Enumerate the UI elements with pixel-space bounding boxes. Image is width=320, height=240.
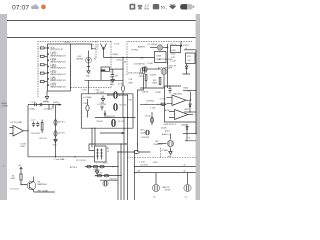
transistor Q21 — [157, 45, 162, 50]
svg-text:MMBT3904: MMBT3904 — [38, 184, 47, 186]
svg-text:A/C5W 2: A/C5W 2 — [70, 166, 77, 169]
svg-text:CON2: CON2 — [116, 59, 122, 61]
svg-text:4: 4 — [38, 65, 39, 67]
resistor R13 — [159, 78, 161, 85]
wire Q23 emitter — [163, 75, 165, 88]
svg-text:2 CON1: 2 CON1 — [147, 63, 154, 65]
svg-text:1.5V 4.5R: 1.5V 4.5R — [140, 165, 148, 167]
svg-text:+C11: +C11 — [31, 120, 35, 122]
CON1 pin rows — [47, 46, 66, 88]
transistor Q162 — [140, 67, 147, 74]
wire vertical from CON2 — [122, 58, 124, 86]
wire Q42 emitter + ground GND5 — [168, 148, 172, 155]
wire h180 — [100, 179, 118, 181]
opamp box — [165, 86, 196, 122]
wire v88 — [87, 80, 89, 94]
svg-text:A-AL6 1,C: A-AL6 1,C — [162, 133, 171, 136]
STATUSBAR — [12, 3, 194, 11]
svg-text:C64: C64 — [115, 76, 118, 78]
PAGEFRAME — [0, 14, 200, 200]
svg-text:C162 BATT(T): C162 BATT(T) — [134, 63, 146, 66]
wire Q162 emitter — [138, 74, 144, 152]
svg-text:12R 4R: 12R 4R — [165, 190, 172, 192]
svg-text:07:07: 07:07 — [12, 4, 29, 11]
battery icon — [180, 4, 193, 9]
svg-text:WAKEUP(B)(T) 4R: WAKEUP(B)(T) 4R — [50, 54, 66, 57]
notif icon 2 — [138, 4, 142, 10]
ground GND7 chain55 — [53, 140, 57, 143]
zener D9 — [186, 124, 188, 134]
svg-text:BATT(B): BATT(B) — [77, 58, 84, 61]
svg-text:TH 1/16: TH 1/16 — [43, 102, 49, 104]
svg-text:WAKEUP(B)(T) 4R: WAKEUP(B)(T) 4R — [50, 61, 66, 64]
wire h133 — [183, 133, 196, 135]
svg-text:DDC(5V)(T) 4R.: DDC(5V)(T) 4R. — [50, 49, 63, 51]
svg-text:X.30R: X.30R — [171, 50, 177, 52]
box X-CON top right — [171, 46, 181, 53]
svg-text:A 25R: A 25R — [54, 101, 60, 104]
svg-text:CON1: CON1 — [64, 42, 70, 44]
svg-text:+3.1: +3.1 — [91, 45, 94, 47]
wire Q22 to Q23 — [148, 68, 161, 70]
capacitor C24 — [168, 86, 171, 94]
sim icon rounded rect — [153, 4, 159, 9]
notif icon 1 — [130, 4, 136, 10]
svg-text:4. (L7) 1.2R: 4. (L7) 1.2R — [10, 188, 20, 190]
bus wire V2 — [120, 144, 122, 200]
component chain x55 — [55, 105, 57, 157]
antenna dashed box — [71, 41, 112, 87]
svg-text:4: 4 — [38, 73, 39, 75]
svg-text:4.7R 2R: 4.7R 2R — [96, 173, 103, 175]
svg-text:K/s: K/s — [145, 7, 150, 11]
transistor Q42 POWER TR — [167, 140, 173, 146]
svg-text:R30 4R: R30 4R — [97, 121, 104, 123]
wire Q42 base — [158, 143, 167, 145]
wire h88 — [140, 87, 164, 89]
svg-text:A22: A22 — [156, 140, 159, 143]
svg-text:1 mod: 1 mod — [98, 44, 100, 49]
wire opamp inputs — [10, 128, 14, 134]
shield dashed box right — [127, 41, 193, 75]
svg-text:4. 25R: 4. 25R — [150, 107, 156, 109]
svg-text:2 25R: 2 25R — [83, 103, 88, 105]
wire arrow at 181 — [180, 41, 182, 46]
svg-text:R2(B): R2(B) — [184, 88, 189, 90]
transistor Q41 — [145, 130, 150, 135]
svg-text:1.2R 4W: 1.2R 4W — [142, 92, 149, 94]
svg-text:DMD1: DMD1 — [113, 54, 120, 56]
amp section box — [81, 94, 133, 128]
svg-text:X 2.5R: X 2.5R — [114, 44, 120, 46]
diode D21 — [183, 64, 191, 75]
svg-text:24),DR: 24),DR — [161, 127, 167, 129]
wire right edge vertical — [195, 50, 197, 134]
svg-text:BAT/C30: BAT/C30 — [163, 186, 170, 189]
bus wire V4 — [127, 95, 129, 200]
svg-text:4. 1.5M(B): 4. 1.5M(B) — [83, 97, 92, 99]
wire Q42 collector up — [170, 134, 172, 140]
ferrite bead FB1 box — [101, 67, 110, 71]
svg-text:1 CON: 1 CON — [31, 102, 37, 104]
junction dots extra — [127, 117, 128, 118]
svg-text:AL61 2: AL61 2 — [165, 130, 170, 133]
transistor Q33 — [112, 119, 116, 126]
svg-text:25R 4.7R: 25R 4.7R — [169, 65, 177, 67]
bus wire V1 — [117, 152, 119, 200]
dashed box bottom right — [127, 148, 196, 158]
wire ferrite bottom — [100, 71, 102, 80]
svg-text:A2003: A2003 — [182, 124, 187, 127]
capacitor C12 — [36, 122, 39, 128]
svg-text:WAKEUP(B)(T) 4R: WAKEUP(B)(T) 4R — [50, 79, 66, 82]
transistor Q52 — [187, 173, 189, 185]
wire R2B — [183, 89, 196, 91]
zener D12 — [104, 111, 106, 118]
svg-text:4R/W: 4R/W — [129, 82, 134, 84]
svg-text:AO POWER/OFF: AO POWER/OFF — [159, 58, 174, 61]
svg-text:R38/L: R38/L — [21, 146, 26, 148]
left mid: ground GND4 — [45, 91, 49, 99]
ground GND2 — [111, 80, 115, 83]
svg-text:R50 C52: R50 C52 — [40, 138, 47, 140]
svg-text:C/BL(T): C/BL(T) — [140, 133, 146, 135]
bus wire V5 — [134, 150, 136, 200]
wire stubs under h104 — [49, 105, 53, 110]
box top right — [186, 53, 196, 64]
svg-text:4/10R: 4/10R — [11, 178, 16, 180]
svg-text:D43 TLV: D43 TLV — [58, 121, 66, 123]
wire U6B inputs — [169, 112, 175, 118]
svg-text:C2-: C2- — [153, 196, 156, 198]
wire R4 to base — [21, 180, 27, 185]
svg-text:4.15/2: 4.15/2 — [153, 162, 158, 164]
resistor chain row 166 left — [85, 166, 118, 168]
junction dots bus — [123, 117, 124, 118]
wire ferrite right — [110, 68, 124, 70]
svg-text:RST_SLN(B): RST_SLN(B) — [38, 190, 49, 192]
bus wire V3 — [123, 118, 125, 201]
capacitor C13 — [40, 103, 42, 106]
svg-text:1. 5mm 50BA: 1. 5mm 50BA — [54, 158, 66, 161]
svg-text:DDC5V_IN(B): DDC5V_IN(B) — [11, 122, 23, 124]
svg-text:WAKEUP(B)(T) 4R: WAKEUP(B)(T) 4R — [50, 67, 66, 70]
arrowhead h104 — [59, 104, 61, 106]
svg-text:3 CON1: 3 CON1 — [2, 106, 9, 108]
resistor chain x152 — [151, 112, 153, 125]
svg-text:C2.0.1: C2.0.1 — [103, 163, 108, 165]
svg-text:C2 25R: C2 25R — [160, 98, 167, 100]
resistor R49 — [41, 123, 43, 131]
wire hline 117 — [95, 117, 136, 119]
capacitor C5 — [100, 106, 103, 110]
transistor Q51 — [155, 173, 157, 185]
battery BT1 — [86, 57, 92, 63]
resistor R16 — [161, 103, 165, 106]
svg-text:FU6CZ/W: FU6CZ/W — [142, 137, 150, 139]
wire U6B output — [188, 114, 193, 116]
wire into U6B — [140, 103, 167, 105]
svg-text:4.7/16: 4.7/16 — [118, 83, 123, 85]
diode D43 — [54, 120, 57, 126]
svg-text:A2: A2 — [107, 147, 109, 150]
connector CON1 box — [48, 44, 71, 91]
svg-text:1.5M 15R: 1.5M 15R — [109, 179, 117, 181]
wire h172 right — [135, 172, 196, 174]
svg-text:R2 4.7R: R2 4.7R — [120, 104, 127, 106]
svg-text:WAKEUP(B)(T) 4R: WAKEUP(B)(T) 4R — [50, 73, 66, 76]
capacitor C64 with ground — [111, 69, 114, 80]
transistor Q53 — [103, 181, 108, 186]
op-amp IC3 — [13, 126, 24, 137]
svg-text:D41 TLV: D41 TLV — [58, 132, 66, 134]
wire pair down to Q-pack — [92, 128, 95, 147]
svg-text:WAKEUP(B)(T) 4R: WAKEUP(B)(T) 4R — [50, 85, 66, 88]
sheet border line top — [7, 20, 196, 22]
svg-text:0.022/R: 0.022/R — [150, 75, 157, 77]
wire resistor run 152 — [118, 151, 151, 153]
svg-text:4: 4 — [38, 56, 39, 58]
svg-text:1.8 (L25: 1.8 (L25 — [145, 115, 151, 117]
ground GND3 — [101, 96, 105, 102]
wire battery bottom — [87, 63, 90, 70]
transistor Q31 — [114, 92, 118, 99]
wire row1 — [107, 94, 128, 96]
wire main right vertical — [167, 44, 169, 88]
orange app-notification dot — [41, 5, 46, 10]
wire h112 — [184, 111, 196, 113]
wire top link — [89, 144, 126, 151]
CON1 left pin markers — [38, 47, 48, 84]
wire bottom h156 — [28, 156, 95, 158]
antenna ANT1 — [101, 44, 107, 58]
wire battery top — [71, 44, 97, 57]
svg-text:C2-: C2- — [185, 196, 188, 198]
wire h80 — [85, 79, 124, 81]
transistor array Q7 box — [95, 146, 107, 162]
svg-text:4 2R/R: 4 2R/R — [183, 45, 189, 47]
svg-text:U6A LM393: U6A LM393 — [173, 92, 182, 95]
wire h166 right — [135, 166, 196, 168]
wire RST — [34, 191, 55, 193]
wire opamp output — [24, 130, 29, 132]
svg-text:4 OFF(T): 4 OFF(T) — [131, 50, 139, 52]
shield dashed box left — [38, 41, 112, 97]
right gray page margin — [196, 14, 200, 200]
svg-text:4. 2.5R: 4. 2.5R — [139, 161, 145, 163]
diode D41 — [54, 131, 57, 137]
svg-text:+C5 47/16V: +C5 47/16V — [97, 104, 107, 106]
wire left vertical — [27, 105, 29, 157]
svg-text:POWER(TR: POWER(TR — [153, 144, 163, 146]
resistor R71 — [134, 151, 139, 154]
svg-text:1.45/W 45.2R 4.: 1.45/W 45.2R 4. — [163, 124, 177, 126]
diode D8 — [189, 101, 191, 112]
resistor R62 — [121, 86, 124, 92]
wire down h140 — [185, 134, 196, 141]
svg-text:5E6V: 5E6V — [157, 55, 162, 57]
svg-text:3: 3 — [38, 81, 39, 83]
svg-text:C4: C4 — [107, 151, 109, 153]
ground GND1 — [87, 71, 90, 74]
wire U6A inputs — [167, 97, 173, 103]
wire Q21 out — [163, 47, 168, 49]
wire CON2 net — [104, 57, 155, 59]
sheet border line second — [7, 37, 196, 39]
svg-text:L07 R1612: L07 R1612 — [146, 100, 154, 102]
svg-text:4 C2dBu: 4 C2dBu — [29, 109, 36, 111]
svg-text:LED/ L: LED/ L — [140, 130, 145, 132]
transistor Q23 — [161, 69, 167, 75]
svg-text:12 V 5/F 5R: 12 V 5/F 5R — [76, 160, 86, 162]
resistor R4 — [20, 174, 22, 180]
svg-text:C12 100/16: C12 100/16 — [31, 133, 40, 135]
svg-text:X124: X124 — [171, 54, 175, 56]
weather cloud icon — [31, 4, 39, 9]
svg-text:+C8 4.7/16: +C8 4.7/16 — [43, 108, 52, 110]
wifi icon — [169, 5, 176, 9]
svg-text:AMP(T): AMP(T) — [138, 46, 145, 49]
ground GND6 — [95, 168, 99, 174]
resistor chain row 175 — [95, 175, 121, 177]
transistor Q8 — [27, 181, 36, 190]
op-amp U6A — [172, 95, 186, 106]
svg-text:1. 5mm: 1. 5mm — [81, 90, 87, 92]
capacitor C7 — [35, 103, 37, 106]
regulator box U12 — [155, 52, 167, 63]
svg-text:1.2R/W: 1.2R/W — [155, 92, 161, 94]
svg-text:1/4: 1/4 — [94, 58, 96, 60]
wire U6A output — [186, 92, 191, 100]
svg-text:X2_ON/OFF: X2_ON/OFF — [148, 44, 159, 46]
resistor R10 — [145, 75, 147, 81]
svg-text:4: 4 — [38, 48, 39, 50]
wire into Q21 — [150, 47, 157, 49]
wire left h104 — [28, 104, 61, 106]
transistor Q22 — [143, 67, 148, 72]
svg-text:AU/W: AU/W — [165, 109, 170, 112]
left gray page margin — [0, 14, 7, 200]
junction node CON2 — [122, 57, 123, 58]
wire top right h — [184, 49, 196, 51]
op-amp U6B — [175, 110, 189, 120]
svg-text:POWER..: POWER.. — [162, 150, 170, 152]
resistor R45 ampbox — [86, 105, 89, 111]
transistor Q32 — [114, 104, 118, 111]
wire h133 mid — [100, 132, 124, 134]
